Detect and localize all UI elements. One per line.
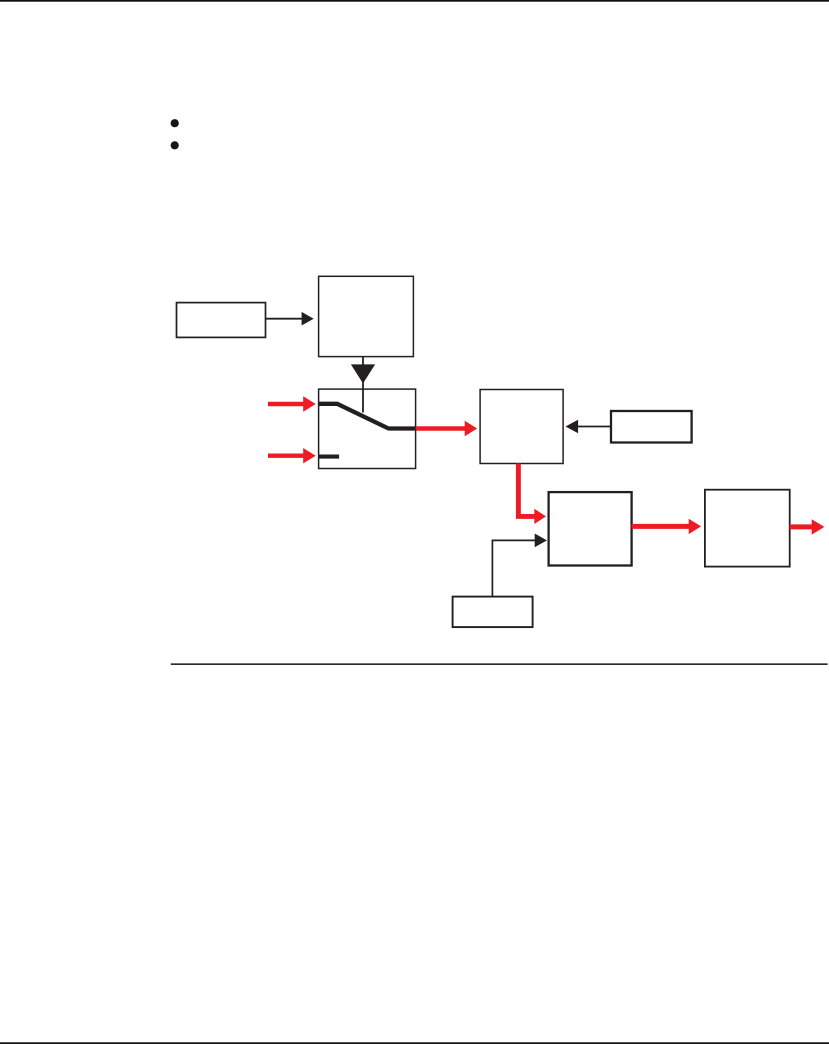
switch contact line in C: [319, 404, 416, 429]
box D (center): [480, 390, 563, 464]
arrow E to D: [566, 420, 612, 434]
bullet 1: [171, 119, 179, 127]
red arrow into C (upper): [268, 396, 316, 411]
box E (right small): [611, 411, 692, 443]
section rule: [171, 663, 828, 665]
arrowhead B to C: [351, 364, 375, 383]
red arrow into C (lower): [268, 448, 316, 463]
box G (bottom small): [453, 597, 533, 628]
bullet 2: [171, 141, 179, 149]
switch stub in C: [319, 455, 340, 459]
box F (bold): [549, 492, 632, 565]
box A (top-left small): [177, 303, 266, 338]
box B (top big): [319, 276, 414, 356]
wire G up: [491, 540, 493, 597]
red arrow C to D: [416, 421, 477, 436]
box H (right): [705, 490, 790, 567]
header rule: [0, 0, 829, 2]
footer rule: [0, 1042, 829, 1044]
arrow G to F: [492, 534, 547, 548]
wire B down into C: [362, 357, 364, 413]
red elbow arrow D to F: [518, 464, 546, 525]
box C (switch box): [319, 389, 416, 468]
red arrow F to H: [632, 519, 702, 534]
red arrow H out: [790, 519, 825, 534]
arrow A to B: [266, 312, 314, 326]
